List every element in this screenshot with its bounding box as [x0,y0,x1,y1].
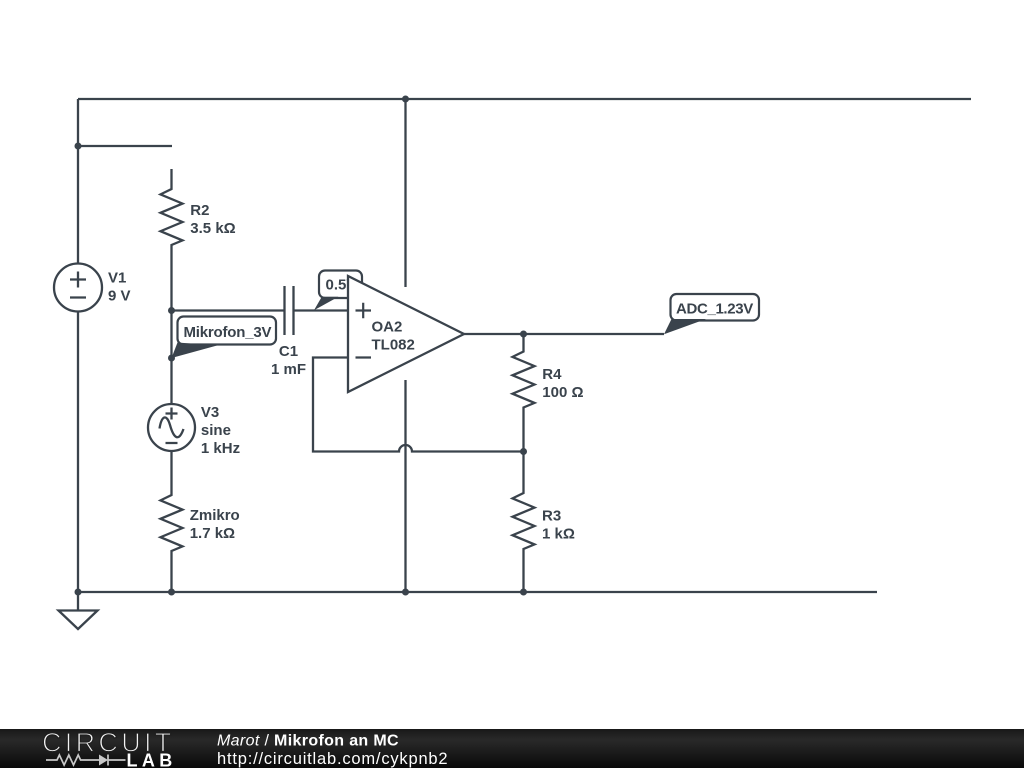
svg-text:1 mF: 1 mF [271,361,306,378]
svg-text:Zmikro: Zmikro [190,507,240,524]
svg-text:V3: V3 [201,404,219,421]
svg-text:R4: R4 [542,366,562,383]
svg-text:C1: C1 [279,343,298,360]
svg-text:1.7 kΩ: 1.7 kΩ [190,525,235,542]
svg-text:R3: R3 [542,508,561,525]
svg-text:LAB: LAB [127,751,177,768]
svg-text:OA2: OA2 [372,319,403,336]
svg-text:sine: sine [201,422,231,439]
svg-text:100 Ω: 100 Ω [542,384,583,401]
svg-text:V1: V1 [108,270,126,287]
svg-text:http://circuitlab.com/cykpnb2: http://circuitlab.com/cykpnb2 [217,750,448,768]
svg-text:1 kΩ: 1 kΩ [542,526,575,543]
svg-text:Marot / Mikrofon an MC: Marot / Mikrofon an MC [217,733,399,750]
svg-text:1 kHz: 1 kHz [201,440,240,457]
svg-text:Mikrofon_3V: Mikrofon_3V [184,324,272,341]
svg-text:TL082: TL082 [372,337,415,354]
svg-text:9 V: 9 V [108,288,131,305]
svg-text:3.5 kΩ: 3.5 kΩ [190,220,235,237]
svg-text:R2: R2 [190,202,209,219]
svg-text:ADC_1.23V: ADC_1.23V [676,301,753,318]
